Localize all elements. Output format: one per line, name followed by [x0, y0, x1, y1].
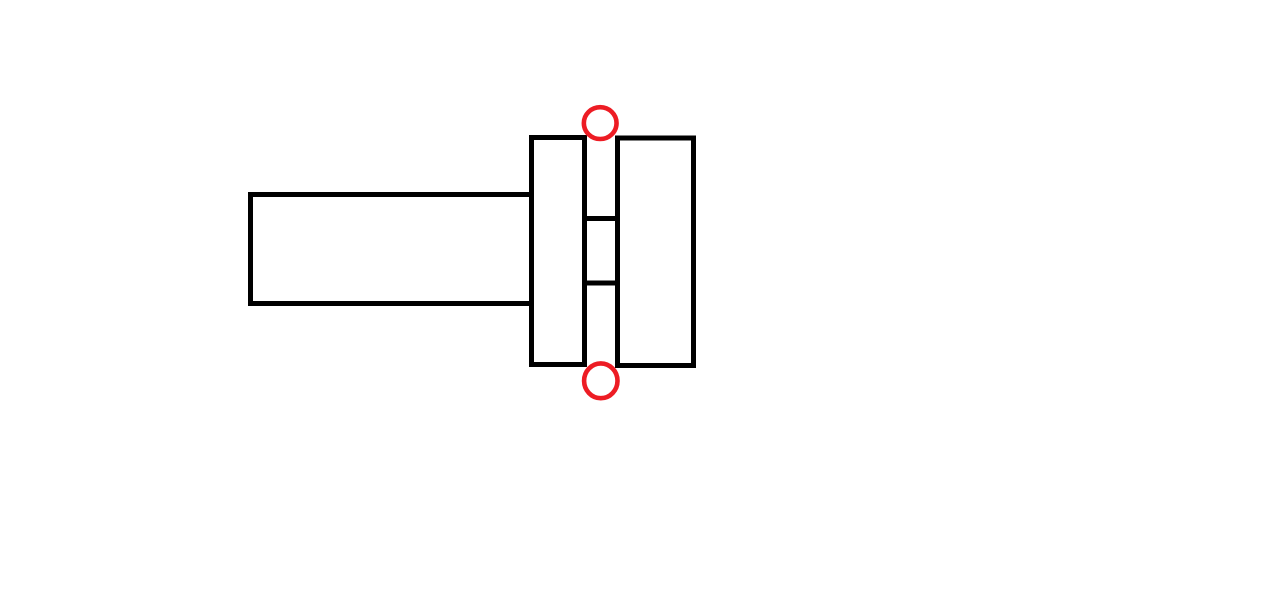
shaft rectangle (horizontal body on the left) — [251, 195, 532, 304]
top red circle marker — [584, 107, 617, 139]
center block (small rectangle inside the channel) — [585, 219, 618, 284]
left flange rectangle (tall vertical block) — [532, 138, 585, 365]
bottom red circle marker — [584, 363, 617, 398]
right flange rectangle (tall vertical block) — [618, 138, 694, 366]
